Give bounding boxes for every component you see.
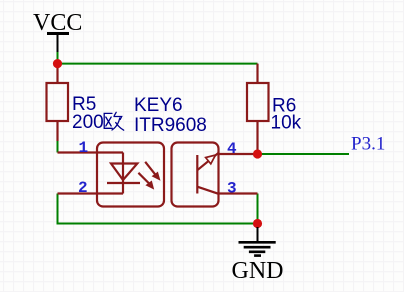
svg-text:VCC: VCC [33, 10, 82, 36]
svg-text:4: 4 [227, 140, 237, 158]
svg-text:1: 1 [79, 139, 89, 157]
svg-text:ITR9608: ITR9608 [134, 115, 207, 136]
svg-text:P3.1: P3.1 [351, 134, 385, 155]
svg-text:KEY6: KEY6 [134, 95, 183, 116]
svg-text:10k: 10k [271, 113, 302, 134]
svg-text:GND: GND [232, 258, 284, 284]
svg-text:2: 2 [78, 179, 88, 197]
svg-text:3: 3 [227, 180, 237, 198]
svg-text:200: 200 [72, 112, 104, 133]
